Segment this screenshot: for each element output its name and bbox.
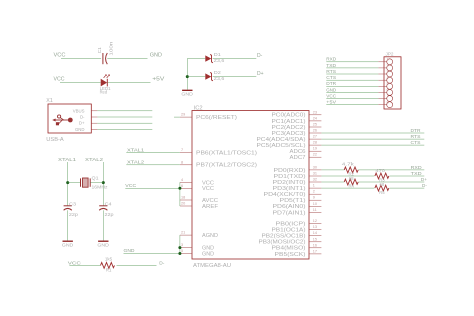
node VCC bbox=[326, 93, 337, 98]
svg-text:VCC: VCC bbox=[202, 186, 214, 192]
node DTR bbox=[326, 81, 337, 86]
svg-text:C1: C1 bbox=[97, 47, 102, 54]
wire R3 to TXD bbox=[390, 175, 425, 177]
wire RTS to JP2 pin 3 bbox=[326, 73, 378, 75]
svg-text:7: 7 bbox=[181, 148, 183, 152]
svg-text:R5: R5 bbox=[379, 190, 385, 195]
pin 10 PD6(AIN0) (right) bbox=[273, 202, 322, 210]
svg-text:6: 6 bbox=[181, 184, 183, 188]
svg-text:D2: D2 bbox=[214, 70, 222, 75]
svg-text:22p: 22p bbox=[105, 212, 115, 217]
node +5V bbox=[326, 100, 336, 105]
svg-text:470: 470 bbox=[375, 168, 385, 173]
svg-text:24: 24 bbox=[313, 116, 317, 120]
JP2 pin 3 bbox=[378, 70, 392, 77]
node D+ bbox=[257, 71, 264, 77]
pin 28 PC5(ADC5/SCL) (right) bbox=[257, 141, 322, 149]
ground (C4) bbox=[97, 241, 109, 247]
JP2 pin 7 bbox=[378, 94, 392, 101]
wire RXD to JP2 pin 1 bbox=[326, 61, 378, 63]
wire R1 to D- bbox=[117, 264, 157, 266]
pin 7 PB6(XTAL1/TOSC1) (left) bbox=[180, 148, 257, 156]
wire X1 GND bbox=[97, 128, 152, 130]
pin 13 PB1(OC1A) (right) bbox=[272, 225, 322, 233]
junction XTAL2/Q1 bbox=[102, 181, 105, 184]
resistor R2 4k7 bbox=[342, 161, 358, 176]
svg-text:68: 68 bbox=[349, 176, 354, 181]
svg-text:USB-A: USB-A bbox=[46, 137, 64, 143]
svg-text:10: 10 bbox=[313, 202, 317, 206]
node TXD bbox=[411, 171, 423, 176]
pin 5 GND (left) bbox=[180, 249, 214, 257]
ground bbox=[181, 90, 193, 96]
svg-text:GND: GND bbox=[150, 53, 163, 59]
wire GND riser bbox=[186, 59, 188, 90]
pin 29 PC6(/RESET) (left) bbox=[180, 113, 237, 121]
USB X1 pin VBUS bbox=[73, 108, 98, 113]
wire VCC to LED1 bbox=[60, 82, 101, 84]
svg-text:3: 3 bbox=[181, 243, 183, 247]
wire PC5 to CTS bbox=[321, 144, 424, 146]
svg-text:11: 11 bbox=[313, 208, 317, 212]
svg-text:C3: C3 bbox=[69, 201, 77, 206]
wire R2 to RXD bbox=[358, 169, 424, 171]
svg-text:17: 17 bbox=[313, 249, 317, 253]
junction VCC bbox=[178, 187, 181, 190]
node RXD bbox=[326, 57, 337, 62]
svg-text:AGND: AGND bbox=[202, 233, 218, 239]
svg-text:C4: C4 bbox=[105, 201, 113, 206]
svg-text:8: 8 bbox=[387, 100, 389, 104]
pin 24 PC1(ADC1) (right) bbox=[272, 116, 322, 124]
svg-text:PB0(ICP): PB0(ICP) bbox=[276, 222, 306, 228]
pin 25 PC2(ADC2) (right) bbox=[272, 123, 322, 131]
wire X1 VBUS bbox=[97, 110, 152, 112]
pin 21 AGND (left) bbox=[180, 231, 218, 239]
svg-text:28: 28 bbox=[313, 141, 317, 145]
svg-text:27: 27 bbox=[313, 135, 317, 139]
wire +5V to JP2 pin 8 bbox=[326, 104, 378, 106]
pin 14 PB2(SS/OC1B) (right) bbox=[262, 231, 322, 239]
node XTAL1 (crystal) bbox=[58, 157, 76, 163]
JP2 pin 6 bbox=[378, 88, 392, 95]
diode D2 Z3,6 bbox=[205, 70, 225, 81]
wire DTR to JP2 pin 5 bbox=[326, 85, 378, 87]
wire XTAL1 bbox=[126, 152, 180, 154]
svg-text:19: 19 bbox=[313, 147, 317, 151]
svg-text:GND: GND bbox=[124, 248, 136, 254]
svg-text:6: 6 bbox=[387, 88, 389, 92]
svg-text:5: 5 bbox=[181, 249, 183, 253]
svg-text:PC1(ADC1): PC1(ADC1) bbox=[272, 119, 306, 125]
JP2 pin 4 bbox=[378, 76, 392, 83]
wire CTS to JP2 pin 4 bbox=[326, 79, 378, 81]
capacitor C4 22p bbox=[99, 201, 114, 217]
svg-text:PB4(MISO): PB4(MISO) bbox=[272, 246, 306, 252]
node CTS bbox=[411, 140, 421, 145]
pin 23 PC0(ADC0) (right) bbox=[272, 110, 322, 118]
svg-text:13: 13 bbox=[313, 225, 317, 229]
svg-text:D+: D+ bbox=[79, 121, 85, 126]
svg-text:PB7(XTAL2/TOSC2): PB7(XTAL2/TOSC2) bbox=[196, 163, 257, 169]
pin 19 ADC6 (right) bbox=[290, 147, 322, 155]
svg-text:3: 3 bbox=[387, 70, 389, 74]
svg-text:Z3,6: Z3,6 bbox=[214, 58, 225, 63]
svg-text:PB5(SCK): PB5(SCK) bbox=[275, 252, 306, 258]
svg-text:Q1: Q1 bbox=[92, 176, 100, 181]
wire stub at PC6 bbox=[174, 116, 180, 118]
svg-text:XTAL2: XTAL2 bbox=[85, 157, 103, 163]
svg-text:23: 23 bbox=[313, 110, 317, 114]
wire X1 D+ bbox=[97, 122, 152, 124]
JP2 pin 2 bbox=[378, 64, 392, 71]
wire PD0 to R2 bbox=[321, 169, 344, 171]
pin 31 PD1(TXD) (right) bbox=[274, 172, 322, 180]
svg-text:JP2: JP2 bbox=[386, 52, 394, 57]
svg-text:100n: 100n bbox=[108, 41, 113, 56]
resistor R3 68 bbox=[375, 168, 389, 183]
svg-text:20: 20 bbox=[181, 202, 185, 206]
svg-text:PD2(INT0): PD2(INT0) bbox=[273, 180, 306, 186]
svg-text:R1: R1 bbox=[106, 267, 112, 272]
svg-text:PC0(ADC0): PC0(ADC0) bbox=[272, 113, 306, 119]
USB X1 pin D- bbox=[80, 115, 97, 120]
junction on riser bbox=[186, 75, 189, 78]
svg-text:D+: D+ bbox=[421, 177, 427, 182]
pin 11 PD7(AIN1) (right) bbox=[273, 208, 322, 216]
svg-text:Z3,6: Z3,6 bbox=[214, 76, 225, 81]
svg-text:+5V: +5V bbox=[152, 76, 165, 82]
svg-text:PC3(ADC3): PC3(ADC3) bbox=[272, 131, 306, 137]
svg-text:VCC: VCC bbox=[326, 93, 337, 98]
svg-text:+5V: +5V bbox=[326, 100, 336, 105]
node GND bbox=[326, 87, 337, 92]
pin 17 PB5(SCK) (right) bbox=[275, 249, 322, 257]
svg-text:X1: X1 bbox=[46, 98, 53, 104]
svg-text:4: 4 bbox=[181, 178, 183, 182]
svg-text:D-: D- bbox=[422, 183, 427, 188]
wire riser to D1 bbox=[187, 58, 205, 60]
node RXD bbox=[411, 165, 423, 170]
svg-text:16MHz: 16MHz bbox=[92, 184, 108, 189]
svg-text:26: 26 bbox=[313, 129, 317, 133]
JP2 pin 8 bbox=[378, 100, 392, 107]
node GND bbox=[150, 53, 163, 59]
node XTAL1 (to IC) bbox=[127, 147, 144, 153]
svg-text:68: 68 bbox=[380, 182, 385, 187]
node DTR bbox=[411, 128, 422, 133]
node VCC bbox=[54, 53, 66, 59]
svg-text:31: 31 bbox=[313, 172, 317, 176]
wire C3 to ground bbox=[67, 210, 69, 240]
svg-text:PD7(AIN1): PD7(AIN1) bbox=[273, 210, 306, 216]
wire LED1 to +5V bbox=[108, 82, 151, 84]
node XTAL2 (crystal) bbox=[85, 157, 103, 163]
node D- (R1) bbox=[159, 260, 164, 266]
svg-text:TXD: TXD bbox=[411, 171, 423, 176]
header JP2 bbox=[384, 52, 401, 109]
pin 26 PC3(ADC3) (right) bbox=[272, 129, 322, 137]
svg-text:30: 30 bbox=[313, 165, 317, 169]
pin 32 PD2(INT0) (right) bbox=[273, 178, 322, 186]
node GND (to IC) bbox=[124, 248, 136, 254]
svg-text:XTAL2: XTAL2 bbox=[127, 159, 144, 165]
pin 18 AVCC (left) bbox=[180, 196, 218, 204]
pin 15 PB3(MOSI/OC2) (right) bbox=[259, 237, 322, 245]
svg-text:21: 21 bbox=[181, 231, 185, 235]
svg-text:RTS: RTS bbox=[411, 134, 421, 139]
svg-text:PB6(XTAL1/TOSC1): PB6(XTAL1/TOSC1) bbox=[196, 151, 257, 157]
wire VCC to R1 bbox=[69, 264, 100, 266]
svg-text:D1: D1 bbox=[214, 52, 222, 57]
node +5V bbox=[152, 76, 165, 82]
svg-text:22p: 22p bbox=[69, 212, 79, 217]
svg-text:14: 14 bbox=[313, 231, 317, 235]
svg-text:D-: D- bbox=[257, 53, 263, 59]
svg-text:D-: D- bbox=[159, 260, 164, 266]
wire XTAL1 riser bbox=[67, 162, 69, 206]
svg-text:GND: GND bbox=[75, 127, 85, 132]
svg-text:PB2(SS/OC1B): PB2(SS/OC1B) bbox=[262, 234, 306, 240]
pin 12 PB0(ICP) (right) bbox=[276, 219, 322, 227]
wire VCC bracket pins 4-6-18-20 bbox=[179, 182, 181, 206]
svg-text:CTS: CTS bbox=[326, 75, 336, 80]
svg-text:5: 5 bbox=[387, 82, 389, 86]
svg-text:XTAL1: XTAL1 bbox=[58, 157, 76, 163]
USB X1 pin GND bbox=[75, 127, 97, 132]
node D+ bbox=[421, 177, 427, 182]
svg-text:PC6(/RESET): PC6(/RESET) bbox=[196, 115, 237, 121]
resistor R1 1k5 bbox=[101, 257, 115, 273]
wire D1 to D- bbox=[213, 58, 257, 60]
wire GND bracket pins 21-3-5 bbox=[179, 235, 181, 253]
node RTS bbox=[326, 69, 336, 74]
diode D1 Z3,6 bbox=[205, 52, 225, 63]
junction GND b bbox=[178, 252, 181, 255]
wire VCC to JP2 pin 7 bbox=[326, 98, 378, 100]
svg-text:2: 2 bbox=[387, 64, 389, 68]
wire Q1 to XTAL2 bbox=[90, 182, 103, 184]
capacitor C1 bbox=[97, 41, 113, 64]
svg-text:1: 1 bbox=[313, 184, 315, 188]
pin 3 GND (left) bbox=[180, 243, 214, 251]
svg-text:Red: Red bbox=[100, 90, 108, 95]
node D- bbox=[422, 183, 427, 188]
svg-text:PD6(AIN0): PD6(AIN0) bbox=[273, 204, 306, 210]
wire R5 to D- bbox=[390, 187, 425, 189]
op-amp: IC U2 box (ATMEGA8-AU) bbox=[192, 105, 309, 268]
wire PD2 to R4 bbox=[321, 181, 344, 183]
svg-text:DTR: DTR bbox=[411, 128, 422, 133]
svg-text:D+: D+ bbox=[257, 71, 264, 77]
crystal Q1 16MHz bbox=[81, 176, 108, 190]
svg-text:PD5(T1): PD5(T1) bbox=[280, 198, 306, 204]
wire C4 to ground bbox=[102, 210, 104, 240]
pin 9 PD5(T1) (right) bbox=[280, 196, 322, 204]
node VCC (R1) bbox=[68, 260, 82, 266]
svg-text:12: 12 bbox=[313, 219, 317, 223]
wire TXD to JP2 pin 2 bbox=[326, 67, 378, 69]
svg-text:2: 2 bbox=[313, 190, 315, 194]
node TXD bbox=[326, 63, 337, 68]
svg-text:4: 4 bbox=[387, 76, 389, 80]
svg-text:RTS: RTS bbox=[326, 69, 336, 74]
pin 2 PD4(XCK/T0) (right) bbox=[264, 190, 322, 198]
svg-text:ATMEGA8-AU: ATMEGA8-AU bbox=[193, 263, 231, 269]
resistor R5 68 bbox=[375, 182, 389, 195]
svg-text:PD0(RXD): PD0(RXD) bbox=[274, 168, 306, 174]
wire X1 D- bbox=[97, 116, 152, 118]
svg-text:VCC: VCC bbox=[54, 77, 65, 83]
wire GND to JP2 pin 6 bbox=[326, 91, 378, 93]
USB trident icon bbox=[52, 115, 73, 125]
wire VCC to IC bbox=[125, 187, 180, 189]
svg-text:RXD: RXD bbox=[411, 165, 423, 170]
svg-text:25: 25 bbox=[313, 123, 317, 127]
svg-text:GND: GND bbox=[326, 87, 337, 92]
junction XTAL1/Q1 bbox=[66, 181, 69, 184]
wire R4 to D+ bbox=[358, 181, 424, 183]
pin 27 PC4(ADC4/SDA) (right) bbox=[257, 135, 322, 143]
pin 16 PB4(MISO) (right) bbox=[272, 243, 322, 251]
svg-text:PC5(ADC5/SCL): PC5(ADC5/SCL) bbox=[257, 143, 306, 149]
wire riser to D2 bbox=[187, 76, 205, 78]
svg-text:ADC7: ADC7 bbox=[290, 155, 306, 161]
node RTS bbox=[411, 134, 421, 139]
svg-text:CTS: CTS bbox=[411, 140, 421, 145]
svg-text:7: 7 bbox=[387, 94, 389, 98]
svg-text:DTR: DTR bbox=[326, 81, 337, 86]
svg-text:16: 16 bbox=[313, 243, 317, 247]
pin 1 PD3(INT1) (right) bbox=[273, 184, 322, 192]
wire PC4 to RTS bbox=[321, 138, 424, 140]
svg-text:TXD: TXD bbox=[326, 63, 337, 68]
USB connector X1 bbox=[46, 98, 91, 143]
svg-text:AREF: AREF bbox=[202, 204, 218, 210]
wire PC3 to DTR bbox=[321, 132, 424, 134]
svg-text:4.7k: 4.7k bbox=[342, 161, 355, 166]
wire GND to IC bbox=[124, 253, 180, 255]
USB X1 pin D+ bbox=[79, 121, 98, 126]
wire VCC to C1 bbox=[61, 58, 101, 60]
wire PD1 to R3 bbox=[321, 175, 374, 177]
junction GND a bbox=[178, 246, 181, 249]
ground (C3) bbox=[62, 241, 74, 247]
resistor R4 68 bbox=[344, 176, 358, 189]
svg-text:GND: GND bbox=[202, 251, 214, 257]
wire D2 to D+ bbox=[213, 76, 257, 78]
svg-text:PD3(INT1): PD3(INT1) bbox=[273, 186, 306, 192]
node D- bbox=[257, 53, 263, 59]
svg-text:1k5: 1k5 bbox=[105, 257, 113, 262]
pin 8 PB7(XTAL2/TOSC2) (left) bbox=[180, 160, 257, 168]
svg-text:22: 22 bbox=[313, 153, 317, 157]
wire C1 to GND bbox=[107, 58, 147, 60]
svg-text:D-: D- bbox=[80, 115, 85, 120]
svg-text:8: 8 bbox=[181, 160, 183, 164]
svg-text:29: 29 bbox=[181, 113, 185, 117]
wire XTAL2 bbox=[126, 164, 180, 166]
svg-text:GND: GND bbox=[97, 243, 109, 248]
svg-text:1: 1 bbox=[387, 58, 389, 62]
pin 6 VCC (left) bbox=[180, 184, 214, 192]
capacitor C3 22p bbox=[64, 201, 79, 217]
JP2 pin 1 bbox=[378, 58, 392, 65]
svg-text:VCC: VCC bbox=[54, 53, 66, 59]
node VCC (to IC) bbox=[125, 183, 137, 189]
node XTAL2 (to IC) bbox=[127, 159, 144, 165]
svg-text:GND: GND bbox=[62, 243, 74, 248]
LED LED1 Red bbox=[100, 75, 112, 95]
svg-text:VBUS: VBUS bbox=[73, 108, 85, 113]
svg-text:VCC: VCC bbox=[125, 183, 137, 189]
wire XTAL2 riser bbox=[102, 162, 104, 206]
node CTS bbox=[326, 75, 336, 80]
svg-text:GND: GND bbox=[181, 92, 193, 97]
JP2 pin 5 bbox=[378, 82, 392, 89]
pin 30 PD0(RXD) (right) bbox=[274, 165, 322, 173]
svg-text:15: 15 bbox=[313, 237, 317, 241]
node VCC bbox=[54, 77, 65, 83]
svg-text:RXD: RXD bbox=[326, 57, 337, 62]
wire PD3 to R5 bbox=[321, 187, 374, 189]
wire XTAL1 to Q1 bbox=[68, 182, 81, 184]
pin 20 AREF (left) bbox=[180, 202, 218, 210]
svg-text:9: 9 bbox=[313, 196, 315, 200]
pin 22 ADC7 (right) bbox=[290, 153, 322, 161]
svg-text:XTAL1: XTAL1 bbox=[127, 147, 144, 153]
svg-text:18: 18 bbox=[181, 196, 185, 200]
svg-text:32: 32 bbox=[313, 178, 317, 182]
pin 4 VCC (left) bbox=[180, 178, 214, 186]
